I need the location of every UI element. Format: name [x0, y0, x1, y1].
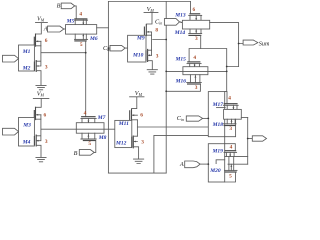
wire inside box5 — [217, 107, 226, 109]
svg-text:8: 8 — [155, 28, 158, 34]
wire B to M5 gate — [75, 6, 77, 19]
wire Cin1 buffer to box — [108, 47, 127, 49]
svg-text:VM: VM — [135, 90, 143, 97]
svg-text:6: 6 — [44, 112, 47, 118]
svg-text:M2: M2 — [22, 65, 31, 71]
svg-text:4: 4 — [230, 144, 233, 150]
input buffer A — [48, 26, 64, 32]
svg-text:M6: M6 — [89, 36, 98, 42]
transistor M16 — [187, 82, 202, 84]
input buffer Cin1 — [110, 45, 125, 51]
wire Cin2 buffer to M13/M14 arm — [180, 21, 183, 24]
wire V3 to Co buffer — [248, 138, 253, 140]
wire inside box6 — [216, 160, 225, 164]
svg-text:M16: M16 — [175, 79, 187, 85]
wire box5 top ext to M17 gate — [225, 92, 227, 104]
wire vertical net V1 Cin — [107, 2, 109, 174]
ground stage1 — [36, 85, 46, 89]
transistor M5 — [75, 18, 87, 20]
pass pair body M13/M14 — [182, 20, 209, 29]
svg-text:5: 5 — [88, 141, 91, 147]
pass pair rails M19/M20 — [225, 157, 248, 165]
transistor M18 — [223, 123, 236, 125]
input buffer Cin3 — [186, 116, 202, 121]
wire inverter2 output and M7/M8 arm to box3 — [41, 128, 115, 130]
transistor M11 — [130, 110, 132, 121]
svg-text:3: 3 — [156, 53, 159, 59]
wire M20 gate to box6 bottom ext — [225, 172, 236, 182]
output buffer Sum — [243, 40, 258, 45]
power VM supply 2 — [33, 98, 49, 108]
svg-text:M15: M15 — [175, 57, 187, 63]
transistor M17 — [224, 103, 237, 105]
box gate net stage2 — [19, 118, 35, 147]
box gate net M17/M18 — [208, 92, 224, 137]
wire gate link M14-M15 and right drop — [189, 49, 227, 92]
svg-text:M1: M1 — [22, 49, 31, 55]
transistor M3 — [34, 107, 35, 119]
wire M11 drain to M12 drain — [136, 120, 138, 136]
pass pair body M17/M18 — [224, 109, 242, 119]
wire M1 drain to M2 drain with output tap — [36, 41, 41, 66]
wire sum taps — [227, 44, 243, 67]
svg-text:M8: M8 — [98, 135, 107, 141]
svg-text:Sum: Sum — [259, 41, 269, 48]
svg-text:M9: M9 — [136, 35, 145, 41]
box gate net stage1 — [19, 45, 35, 71]
svg-text:4: 4 — [228, 96, 231, 102]
svg-text:6: 6 — [45, 38, 48, 44]
power VM supply 1 — [36, 23, 48, 35]
transistor M12 — [132, 136, 134, 148]
input buffer A2 — [185, 161, 200, 168]
svg-text:3: 3 — [45, 64, 48, 70]
svg-text:6: 6 — [140, 112, 143, 118]
wire Cin net link to box5 — [154, 135, 208, 173]
svg-text:M12: M12 — [115, 140, 127, 146]
input buffer B2 — [79, 150, 94, 156]
transistor M14 — [189, 33, 202, 35]
svg-text:M7: M7 — [97, 115, 106, 121]
transistor M10 — [146, 49, 148, 61]
input buffer Cin2 — [164, 19, 179, 26]
svg-text:B: B — [57, 2, 61, 9]
svg-text:4: 4 — [84, 111, 87, 117]
wire M13 gate drop — [190, 2, 192, 14]
transistor M8 — [81, 138, 96, 140]
wire vertical net V2 — [165, 2, 167, 174]
svg-text:Cin: Cin — [177, 115, 184, 122]
svg-text:Cin: Cin — [103, 45, 110, 52]
svg-text:M19: M19 — [212, 148, 224, 154]
input buffer stage2 — [3, 128, 19, 135]
wire M14 gate down — [200, 35, 202, 48]
svg-text:3: 3 — [229, 126, 232, 132]
wire inverter1 output to M7 gate column — [41, 52, 86, 54]
svg-text:VM: VM — [37, 16, 45, 23]
box gate net M19/M20 — [208, 144, 224, 182]
transistor M19 — [225, 150, 236, 152]
svg-text:3: 3 — [195, 85, 198, 91]
svg-text:VM: VM — [37, 90, 45, 97]
pass pair body M15/M16 — [183, 67, 208, 75]
box gate net Cin inverter — [128, 35, 146, 62]
wire V3 carry column — [247, 118, 249, 165]
wire M9 drain to M10 drain with tap to V2 — [152, 32, 167, 55]
input buffer B top — [61, 3, 74, 9]
svg-text:A: A — [43, 25, 48, 32]
wire Cin3 to box5 — [203, 117, 209, 119]
wire M17/M18 right arm to V3 — [241, 117, 247, 119]
transistor M2 — [34, 61, 36, 72]
svg-text:3: 3 — [141, 139, 144, 145]
pass pair body M7/M8 — [76, 123, 104, 134]
wire M6 gate column down to M7 gate — [85, 41, 87, 117]
wire bottom rail — [108, 172, 166, 174]
svg-text:4: 4 — [79, 12, 82, 18]
transistor M15 — [188, 61, 200, 63]
ground stage2 — [36, 157, 46, 161]
svg-text:3: 3 — [195, 36, 198, 42]
power VM supply 4 — [130, 97, 144, 110]
svg-text:Cin: Cin — [155, 19, 162, 26]
transistor M6 — [75, 38, 88, 40]
wire M13/M14 right arm to Sum column — [210, 23, 239, 67]
svg-text:M3: M3 — [22, 123, 31, 129]
transistor M1 — [34, 34, 35, 46]
wire A2 to box6 — [200, 163, 208, 165]
svg-text:M4: M4 — [22, 140, 31, 146]
svg-text:M10: M10 — [132, 53, 144, 59]
transistor M13 — [190, 13, 200, 15]
wire M8 gate to B buffer 2 — [94, 141, 96, 153]
wire top rail to M13 gate — [108, 1, 190, 3]
svg-text:M17: M17 — [212, 102, 224, 108]
pass pair body M5/M6 — [66, 25, 97, 34]
wire A buffer to body — [64, 28, 66, 30]
transistor M9 — [144, 25, 146, 36]
ground M12 — [134, 159, 144, 163]
wire M16 gate to V2 — [166, 84, 200, 91]
output buffer Co — [252, 136, 266, 141]
transistor M20 — [225, 169, 238, 171]
box gate net M11/M12 — [115, 120, 132, 147]
ground M10 — [147, 70, 157, 74]
svg-text:A: A — [179, 161, 184, 168]
svg-text:M14: M14 — [174, 30, 186, 36]
svg-text:M18: M18 — [212, 122, 224, 128]
wire M7/M8 arm through body — [76, 128, 104, 130]
transistor M4 — [34, 135, 36, 146]
svg-text:VM: VM — [147, 6, 155, 13]
svg-text:4: 4 — [193, 55, 196, 61]
wire M5/M6 right arm to V1 — [97, 27, 109, 29]
svg-text:M5: M5 — [66, 19, 75, 25]
power VM supply 3 — [144, 12, 158, 24]
svg-text:M11: M11 — [118, 121, 129, 127]
svg-text:5: 5 — [229, 173, 232, 179]
svg-text:3: 3 — [45, 139, 48, 145]
wire box6 top ext to M19 gate — [225, 144, 236, 151]
svg-text:6: 6 — [193, 7, 196, 13]
transistor M7 — [82, 116, 95, 118]
wire box5-box6 connector — [224, 137, 226, 144]
wire M15/M16 arm through body V2 to link — [166, 70, 227, 72]
wire carry rail to box5 — [137, 126, 208, 128]
svg-text:B: B — [74, 150, 78, 157]
wire M3 drain to M4 drain — [36, 115, 41, 141]
input buffer stage1 — [3, 55, 19, 62]
wire M18 gate down to box5 bottom ext — [225, 119, 236, 137]
svg-text:M13: M13 — [174, 12, 186, 18]
svg-text:5: 5 — [80, 42, 83, 48]
svg-text:M20: M20 — [209, 168, 221, 174]
